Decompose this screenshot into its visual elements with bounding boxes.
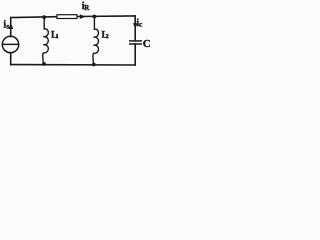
wire left vertical upper	[10, 18, 12, 37]
node dot top-right (L2 top)	[93, 15, 97, 19]
node dot bottom (L2 bottom)	[92, 63, 96, 67]
inductor L1 coil	[43, 17, 49, 64]
capacitor C plates	[129, 41, 142, 44]
svg-text:s: s	[6, 22, 9, 30]
svg-text:R: R	[84, 4, 90, 12]
wire top-right segment	[77, 15, 135, 18]
wire right vertical upper	[134, 16, 136, 41]
svg-text:1: 1	[56, 33, 59, 40]
svg-text:2: 2	[106, 33, 109, 40]
wire top-left segment	[11, 16, 57, 19]
node dot top-left (L1 top)	[42, 15, 46, 19]
arrow is (current direction, up)	[8, 23, 13, 29]
arrow iR (current direction, right)	[80, 14, 86, 19]
svg-text:c: c	[139, 19, 143, 28]
current source IS (circle with horizontal bar)	[2, 36, 19, 52]
svg-text:C: C	[143, 38, 151, 50]
inductor L2 coil	[93, 17, 99, 65]
node dot bottom (L1 bottom)	[42, 62, 46, 66]
wire right vertical lower	[134, 44, 136, 65]
wire bottom	[11, 64, 136, 66]
wire left vertical lower	[10, 53, 12, 65]
arrow iC (current direction, down)	[133, 23, 138, 28]
resistor R (box)	[57, 15, 77, 19]
